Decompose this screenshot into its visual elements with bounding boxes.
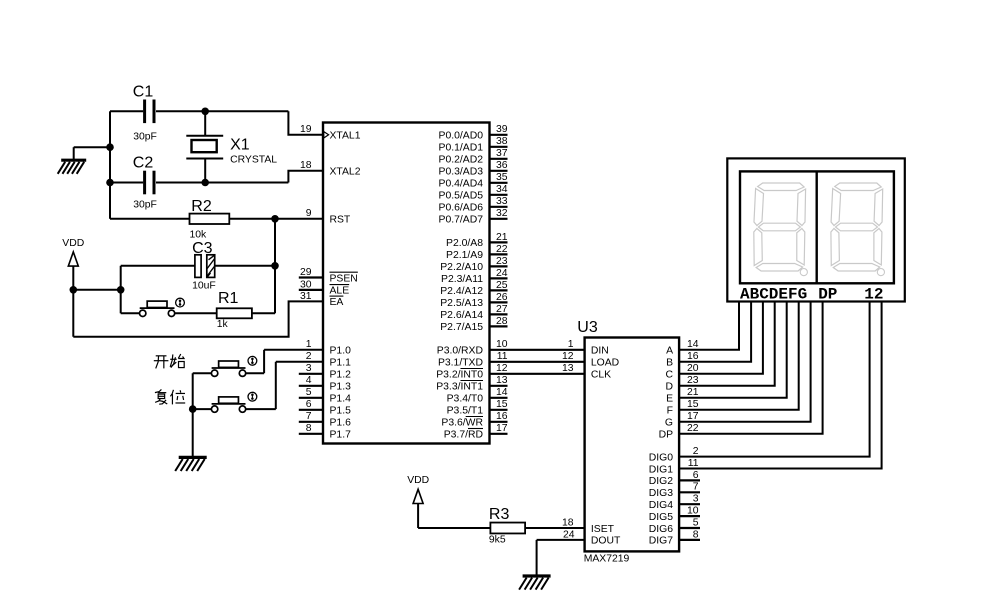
svg-text:P1.2: P1.2 — [330, 370, 352, 381]
svg-text:P3.0/RXD: P3.0/RXD — [437, 346, 483, 357]
svg-text:10k: 10k — [190, 230, 208, 241]
svg-text:P2.5/A13: P2.5/A13 — [440, 298, 483, 309]
svg-text:11: 11 — [497, 351, 508, 362]
svg-text:17: 17 — [687, 411, 699, 422]
svg-text:P0.4/AD4: P0.4/AD4 — [439, 179, 484, 190]
svg-text:16: 16 — [496, 411, 508, 422]
svg-text:P0.5/AD5: P0.5/AD5 — [439, 191, 484, 202]
svg-text:VDD: VDD — [407, 475, 429, 486]
svg-text:23: 23 — [687, 375, 699, 386]
svg-text:P0.1/AD1: P0.1/AD1 — [439, 143, 484, 154]
svg-text:31: 31 — [300, 291, 312, 302]
svg-text:15: 15 — [496, 399, 508, 410]
svg-text:5: 5 — [693, 517, 699, 528]
svg-text:DIG2: DIG2 — [649, 476, 673, 487]
svg-text:DIG1: DIG1 — [649, 464, 673, 475]
svg-text:P0.3/AD3: P0.3/AD3 — [439, 167, 484, 178]
svg-text:35: 35 — [496, 172, 508, 183]
svg-text:DP: DP — [659, 430, 674, 441]
svg-text:10: 10 — [687, 506, 699, 517]
svg-text:P2.2/A10: P2.2/A10 — [440, 262, 483, 273]
svg-text:ISET: ISET — [591, 524, 615, 535]
svg-text:DIG4: DIG4 — [649, 500, 673, 511]
svg-text:P2.7/A15: P2.7/A15 — [440, 322, 483, 333]
svg-text:B: B — [666, 358, 673, 369]
svg-text:P3.7/RD: P3.7/RD — [444, 430, 483, 441]
svg-text:E: E — [666, 394, 673, 405]
svg-text:P2.6/A14: P2.6/A14 — [440, 310, 483, 321]
svg-text:12: 12 — [864, 286, 883, 304]
svg-text:34: 34 — [496, 184, 508, 195]
svg-text:P1.7: P1.7 — [330, 430, 352, 441]
svg-text:6: 6 — [693, 470, 699, 481]
svg-text:9k5: 9k5 — [489, 535, 506, 546]
svg-text:20: 20 — [687, 363, 699, 374]
svg-text:P3.1/TXD: P3.1/TXD — [438, 358, 483, 369]
svg-text:ABCDEFG: ABCDEFG — [740, 286, 807, 304]
svg-text:12: 12 — [496, 363, 508, 374]
svg-text:24: 24 — [563, 529, 575, 540]
svg-text:16: 16 — [687, 351, 699, 362]
svg-text:4: 4 — [306, 375, 312, 386]
svg-text:5: 5 — [306, 387, 312, 398]
svg-text:P1.4: P1.4 — [330, 394, 352, 405]
svg-text:36: 36 — [496, 160, 508, 171]
svg-text:1k: 1k — [217, 319, 229, 330]
svg-text:LOAD: LOAD — [591, 358, 619, 369]
svg-text:C2: C2 — [133, 155, 154, 172]
svg-text:38: 38 — [496, 136, 508, 147]
svg-text:EA: EA — [330, 297, 344, 308]
svg-text:P1.6: P1.6 — [330, 418, 352, 429]
svg-text:13: 13 — [496, 375, 508, 386]
svg-text:P2.1/A9: P2.1/A9 — [446, 250, 483, 261]
svg-text:P0.0/AD0: P0.0/AD0 — [439, 131, 484, 142]
svg-text:P3.6/WR: P3.6/WR — [441, 418, 483, 429]
svg-text:U3: U3 — [577, 319, 598, 336]
svg-text:P0.7/AD7: P0.7/AD7 — [439, 215, 484, 226]
svg-text:R1: R1 — [218, 290, 239, 307]
svg-text:26: 26 — [496, 292, 508, 303]
svg-text:RST: RST — [330, 215, 351, 226]
svg-text:P2.3/A11: P2.3/A11 — [441, 274, 483, 285]
svg-text:ALE: ALE — [330, 286, 350, 297]
svg-text:X1: X1 — [230, 137, 250, 154]
svg-text:23: 23 — [496, 256, 508, 267]
svg-text:CRYSTAL: CRYSTAL — [230, 154, 277, 165]
svg-text:P0.6/AD6: P0.6/AD6 — [439, 203, 484, 214]
svg-text:37: 37 — [496, 148, 508, 159]
svg-text:10: 10 — [496, 339, 508, 350]
svg-text:33: 33 — [496, 196, 508, 207]
svg-text:9: 9 — [306, 208, 312, 219]
svg-text:P1.0: P1.0 — [330, 346, 352, 357]
svg-text:P3.2/INT0: P3.2/INT0 — [436, 370, 483, 381]
svg-text:3: 3 — [306, 363, 312, 374]
svg-text:27: 27 — [496, 304, 508, 315]
svg-text:P3.4/T0: P3.4/T0 — [447, 394, 484, 405]
svg-text:7: 7 — [306, 411, 312, 422]
svg-text:22: 22 — [687, 423, 699, 434]
svg-text:P3.5/T1: P3.5/T1 — [447, 406, 484, 417]
svg-text:P1.3: P1.3 — [330, 382, 352, 393]
svg-text:DIG7: DIG7 — [649, 536, 673, 547]
svg-text:14: 14 — [496, 387, 508, 398]
svg-text:XTAL2: XTAL2 — [330, 167, 361, 178]
svg-text:P3.3/INT1: P3.3/INT1 — [436, 382, 483, 393]
svg-text:24: 24 — [496, 268, 508, 279]
svg-text:8: 8 — [693, 529, 699, 540]
svg-text:P2.4/A12: P2.4/A12 — [440, 286, 483, 297]
svg-text:10uF: 10uF — [192, 281, 216, 292]
svg-text:11: 11 — [688, 458, 699, 469]
svg-text:17: 17 — [496, 423, 508, 434]
svg-text:1: 1 — [568, 339, 574, 350]
svg-text:30pF: 30pF — [133, 131, 157, 142]
svg-text:P1.1: P1.1 — [330, 358, 352, 369]
svg-text:39: 39 — [496, 124, 508, 135]
svg-text:14: 14 — [687, 339, 699, 350]
svg-text:R2: R2 — [191, 198, 212, 215]
svg-text:C: C — [665, 370, 673, 381]
svg-text:C3: C3 — [192, 240, 213, 257]
svg-text:3: 3 — [693, 494, 699, 505]
svg-text:DIG3: DIG3 — [649, 488, 673, 499]
svg-text:18: 18 — [300, 160, 312, 171]
svg-text:32: 32 — [496, 208, 508, 219]
svg-text:6: 6 — [306, 399, 312, 410]
svg-text:F: F — [667, 406, 673, 417]
svg-text:XTAL1: XTAL1 — [330, 131, 361, 142]
svg-text:22: 22 — [496, 244, 508, 255]
svg-text:DOUT: DOUT — [591, 536, 621, 547]
svg-text:25: 25 — [496, 280, 508, 291]
svg-text:15: 15 — [687, 399, 699, 410]
svg-text:P0.2/AD2: P0.2/AD2 — [439, 155, 484, 166]
svg-text:29: 29 — [300, 267, 312, 278]
svg-text:1: 1 — [306, 339, 312, 350]
svg-text:12: 12 — [562, 351, 574, 362]
svg-text:DIG5: DIG5 — [649, 512, 673, 523]
svg-text:CLK: CLK — [591, 370, 611, 381]
svg-text:18: 18 — [562, 517, 574, 528]
svg-text:VDD: VDD — [62, 238, 84, 249]
svg-text:21: 21 — [687, 387, 699, 398]
svg-text:P1.5: P1.5 — [330, 406, 352, 417]
svg-text:21: 21 — [496, 232, 508, 243]
svg-text:DIN: DIN — [591, 346, 609, 357]
svg-text:8: 8 — [306, 423, 312, 434]
svg-text:19: 19 — [300, 124, 312, 135]
svg-text:A: A — [666, 346, 673, 357]
svg-text:2: 2 — [693, 446, 699, 457]
svg-text:PSEN: PSEN — [330, 273, 358, 284]
svg-text:MAX7219: MAX7219 — [584, 554, 630, 565]
svg-text:D: D — [665, 382, 673, 393]
svg-text:DIG0: DIG0 — [649, 452, 673, 463]
svg-text:13: 13 — [562, 363, 574, 374]
svg-text:7: 7 — [693, 482, 699, 493]
svg-text:G: G — [665, 418, 673, 429]
svg-text:30pF: 30pF — [133, 200, 157, 211]
svg-text:DIG6: DIG6 — [649, 524, 673, 535]
svg-text:28: 28 — [496, 316, 508, 327]
svg-text:P2.0/A8: P2.0/A8 — [446, 238, 483, 249]
svg-text:2: 2 — [306, 351, 312, 362]
svg-text:30: 30 — [300, 279, 312, 290]
svg-text:R3: R3 — [489, 506, 510, 523]
svg-text:DP: DP — [818, 286, 837, 304]
svg-text:C1: C1 — [133, 84, 154, 101]
